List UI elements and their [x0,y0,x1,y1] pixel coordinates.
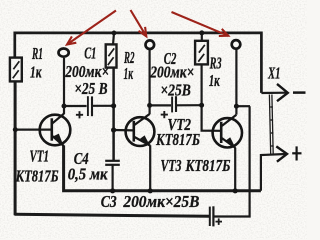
wire R2 bottom / C1 right / VT2 base column down to C4 [112,67,115,160]
capacitor C4 plates [105,161,120,191]
svg-text:VT1: VT1 [30,147,50,166]
svg-text:×25В: ×25В [160,81,191,100]
X1 minus sign [293,91,306,94]
wire R3 top to rail [201,33,203,41]
X1 plus sign [292,146,301,160]
capacitor C1 plus [76,111,83,118]
svg-text:КТ817Б: КТ817Б [15,167,59,186]
node VT1 base [13,127,18,132]
svg-text:0,5 мк: 0,5 мк [68,165,108,184]
svg-text:КТ817Б: КТ817Б [155,130,200,149]
svg-text:200мк×: 200мк× [149,63,194,82]
red arrow 1 [67,11,116,45]
wire R2 top to rail [113,33,114,45]
wire bottom rail right [213,106,249,216]
node C4 bottom [110,188,115,193]
wire left rail [14,81,17,215]
wire terminal 2 to VT2 collector [149,49,151,114]
transistor VT3 [213,115,242,148]
wire VT2 emitter down [149,145,151,191]
wire VT3 emitter down [234,148,236,191]
capacitor C3 plates [210,206,214,226]
wire VT2 base horizontal [114,129,134,132]
capacitor C1 wires [64,105,87,107]
X1 top pin arrow [277,84,288,101]
wire C4 bottom [111,165,113,191]
wire X1 top pin [261,92,286,95]
wire VT1 emitter down and emitter bus [64,146,261,191]
node VT3 emitter [233,188,238,193]
transistor VT2 [126,114,155,146]
wire bottom rail left [15,214,210,216]
capacitor C1 plates [88,96,92,116]
node C2 right [199,103,204,108]
resistor R3 [195,41,208,65]
transistor VT1 [40,114,71,146]
wire collector stub to right drop [236,105,250,107]
node collector VT3 [234,104,239,109]
wire top rail [15,33,262,93]
red arrow 2 [131,10,147,36]
capacitor C2 plus [161,111,168,118]
node VT2 emitter [148,188,153,193]
terminal circle 2 [146,40,155,49]
connector X1 double line [269,95,273,155]
svg-text:C1: C1 [84,44,96,63]
wire VT1 base from left rail [15,129,52,131]
node R3 top [199,30,204,35]
svg-text:R1: R1 [31,44,43,63]
node C1 right [111,103,116,108]
node VT2 base [111,127,116,132]
capacitor C3 plus [216,218,223,225]
wire X1 bottom pin riser [261,154,285,191]
svg-text:1к: 1к [30,63,42,82]
svg-text:VT3: VT3 [161,156,182,175]
svg-text:X1: X1 [267,64,280,83]
junction node dots [13,30,239,193]
X1 bottom pin arrow [276,146,287,161]
node C1 left [62,104,67,109]
terminal circle 1 [59,49,69,57]
resistor R2 [106,44,117,67]
node C2 left [147,103,152,108]
resistor R1 [10,58,22,82]
svg-text:200мк×25В: 200мк×25В [122,192,199,211]
svg-text:КТ817Б: КТ817Б [185,156,231,175]
node R2 top [112,31,117,36]
svg-text:C3: C3 [101,192,117,211]
wire R3 bottom to VT3 base [202,65,222,131]
svg-text:×25 В: ×25 В [74,79,107,98]
terminal circle 3 [232,40,241,49]
svg-text:1к: 1к [209,71,220,90]
svg-text:1к: 1к [124,64,134,83]
svg-text:R3: R3 [209,53,222,72]
capacitor C2 plates [172,96,176,112]
wire terminal 3 to VT3 collector [235,49,237,115]
capacitor C2 wires [150,104,171,106]
red arrow 3 [172,12,229,36]
wire terminal 1 to VT1 collector [63,58,65,114]
